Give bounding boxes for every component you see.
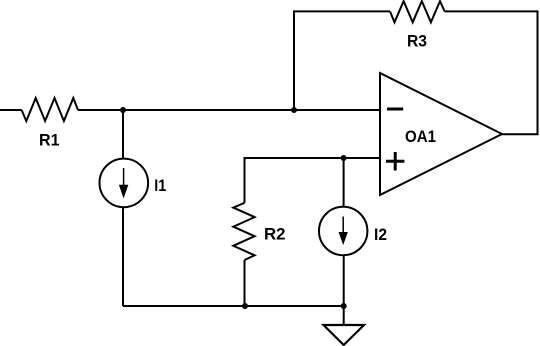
non-inverting input pin label + [386,152,404,171]
svg-text:R2: R2 [264,225,286,244]
node A (R1 / I1 junction) [120,107,126,113]
current source I2 [319,207,387,255]
wire node down to I2 [343,158,345,207]
node bottom R2 junction [242,303,248,309]
resistor R3 [390,1,445,22]
svg-text:OA1: OA1 [405,127,436,146]
wire R2 top [245,158,381,203]
resistor R1 [22,98,78,121]
wire input stub [0,109,22,111]
resistor R2 [233,203,254,260]
op-amp OA1 [380,73,502,195]
node plus-input / I2 junction [341,155,347,161]
wire I2 down to bottom rail and ground stub [343,255,345,325]
wire I1 down to bottom rail [122,207,124,306]
svg-text:I1: I1 [154,176,166,195]
wire R2 bottom [244,260,246,306]
inverting input pin label - [387,108,403,111]
node bottom ground junction [341,303,347,309]
svg-text:R1: R1 [39,130,60,149]
svg-text:R3: R3 [407,32,427,51]
svg-text:I2: I2 [374,225,387,244]
ground [324,325,365,345]
node feedback junction on minus wire [291,107,297,113]
wire R1 to op-amp minus input [78,109,380,111]
wire feedback left vertical [294,11,390,110]
wire node A down to I1 [122,110,124,159]
current source I1 [100,159,167,208]
wire bottom rail [123,305,344,307]
wire R3 to output vertical [445,11,538,134]
